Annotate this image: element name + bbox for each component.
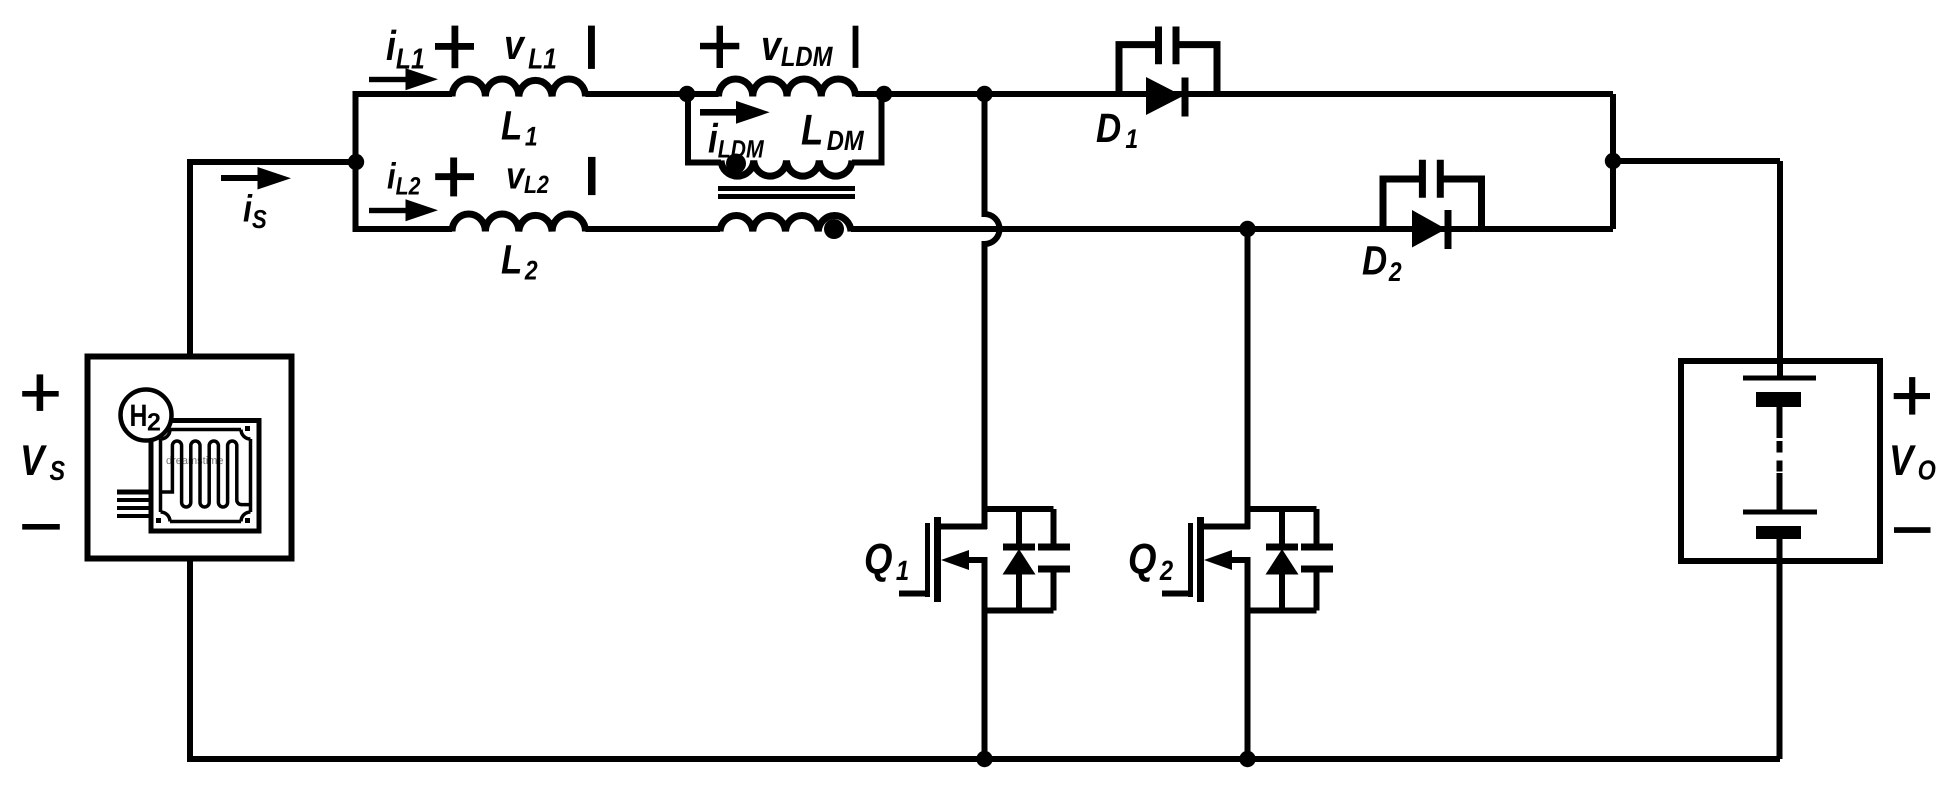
wire LDM loop right vertical bbox=[879, 94, 885, 163]
Q1 body diode triangle bbox=[1003, 549, 1036, 575]
diode D1 bbox=[1146, 77, 1183, 115]
wire Q1 drain vertical with hop over L2 line bbox=[985, 94, 1000, 529]
battery cell 1 short plate bbox=[1756, 392, 1801, 407]
capacitor snubber of D1 bbox=[1119, 45, 1217, 94]
Q1 body diode leads bbox=[1016, 509, 1022, 611]
Q2 snubber top branch bbox=[1248, 506, 1317, 512]
Q1 body diode cathode bar bbox=[1003, 544, 1035, 551]
Q1 snubber top branch bbox=[985, 506, 1054, 512]
coupled inductor LDM lower winding bbox=[720, 215, 851, 231]
wire L1 to node A bbox=[586, 91, 691, 97]
MOSFET Q1 bbox=[899, 509, 1070, 759]
battery VO box bbox=[1681, 361, 1880, 561]
Q1 parasitic capacitor plates bbox=[1038, 547, 1070, 569]
Q2 body diode leads bbox=[1279, 509, 1285, 611]
Q2 parasitic capacitor plates bbox=[1301, 547, 1333, 569]
arrow iL2 bbox=[369, 208, 406, 213]
wire Q2 drain vertical bbox=[1245, 229, 1251, 529]
battery cell 1 long plate bbox=[1743, 376, 1816, 381]
arrow iS bbox=[221, 175, 259, 181]
wire LDM top leads bbox=[687, 91, 884, 97]
diode D1 cathode bar bbox=[1182, 78, 1189, 117]
svg-text:2: 2 bbox=[147, 409, 161, 437]
wire L2 branch left lead bbox=[353, 226, 453, 232]
svg-text:H: H bbox=[130, 398, 148, 433]
node D output junction bbox=[1605, 153, 1621, 169]
label vLDM minus bar bbox=[853, 26, 859, 68]
diode D2 bbox=[1412, 210, 1446, 248]
wire L2 line to right corner bbox=[851, 226, 1613, 232]
battery dashed link bbox=[1777, 441, 1783, 453]
Q1 source vertical bbox=[982, 560, 988, 759]
arrow iLDM bbox=[700, 109, 738, 116]
polarity dot LDM winding 1 bbox=[726, 154, 746, 174]
Q2 parasitic capacitor leads bbox=[1314, 509, 1320, 611]
battery internal link bbox=[1777, 407, 1783, 438]
wire top line node B to corner bbox=[884, 91, 1613, 97]
wire LDM loop left vertical bbox=[685, 94, 691, 163]
Q2 gate bar bbox=[1188, 523, 1193, 597]
fuel cell pipe vertical bbox=[153, 440, 158, 492]
Q2 source vertical bbox=[1245, 560, 1251, 759]
label VS plus sign bbox=[22, 391, 59, 397]
source VS box bbox=[88, 357, 292, 559]
Q1 channel bar bbox=[934, 517, 941, 602]
node Q2 source to ground bus bbox=[1239, 751, 1255, 767]
fuel cell H2 circle bbox=[121, 390, 172, 441]
node A bbox=[679, 86, 695, 102]
fuel cell pipes bbox=[117, 490, 176, 495]
inductor L1 bbox=[452, 79, 586, 97]
MOSFET Q2 bbox=[1162, 509, 1333, 759]
node source tap junction bbox=[348, 154, 364, 170]
label vL1 minus bar bbox=[588, 26, 595, 69]
core line 1 bbox=[718, 186, 855, 191]
node B bbox=[876, 86, 892, 102]
Q1 gate lead bbox=[899, 591, 925, 597]
Q2 snubber bottom branch bbox=[1248, 608, 1317, 614]
label vL1 plus sign bbox=[435, 43, 474, 50]
core line 2 bbox=[718, 194, 855, 199]
wire left rail vertical bbox=[353, 91, 359, 229]
battery internal link 2 bbox=[1777, 473, 1783, 512]
Q1 gate bar bbox=[925, 523, 930, 597]
label vL2 minus bar bbox=[588, 157, 596, 195]
coupled inductor LDM top winding bbox=[719, 79, 856, 97]
arrow iL1 bbox=[369, 77, 406, 82]
capacitor snubber of D2 bbox=[1383, 179, 1482, 229]
battery cell 2 long plate bbox=[1743, 510, 1817, 515]
label VO minus sign bbox=[1894, 527, 1931, 533]
wire L1 branch left lead bbox=[353, 91, 453, 97]
coupled inductor LDM return winding bbox=[721, 161, 852, 177]
Q1 drain jog bbox=[937, 524, 987, 530]
Q2 source arrow bbox=[1204, 550, 1232, 570]
Q2 channel bar bbox=[1197, 517, 1204, 602]
node E (Q2 drain tap) bbox=[1239, 221, 1255, 237]
wire right corner verticals bbox=[1610, 94, 1616, 229]
Q2 body diode cathode bar bbox=[1266, 544, 1298, 551]
Q1 parasitic capacitor leads bbox=[1051, 509, 1057, 611]
Q2 source lead bbox=[1229, 557, 1251, 563]
wire source top lead to left rail bbox=[190, 162, 352, 356]
battery cell 2 short plate bbox=[1756, 526, 1801, 539]
label VO plus sign bbox=[1894, 393, 1930, 399]
capacitor plates of D2 snubber bbox=[1422, 160, 1440, 198]
capacitor plates of D1 snubber bbox=[1159, 27, 1177, 65]
fuel cell stack corner dots bbox=[245, 426, 250, 431]
fuel cell icon bbox=[117, 390, 259, 532]
Q1 source lead bbox=[966, 557, 988, 563]
wire node D to battery bbox=[1613, 161, 1780, 378]
Q1 snubber bottom branch bbox=[985, 608, 1054, 614]
fuel cell serpentine channel bbox=[161, 441, 249, 507]
label vL2 plus sign bbox=[435, 173, 474, 180]
node C bbox=[976, 86, 992, 102]
Q2 body diode triangle bbox=[1266, 549, 1299, 575]
Q2 drain jog bbox=[1200, 524, 1250, 530]
Q2 gate lead bbox=[1162, 591, 1188, 597]
node Q1 source to ground bus bbox=[976, 751, 992, 767]
wire LDM loop bottom leads bbox=[685, 160, 885, 166]
wire L2 to LDM lower winding bbox=[586, 226, 721, 232]
Q1 source arrow bbox=[941, 550, 969, 570]
diode D2 cathode bar bbox=[1445, 210, 1452, 249]
fuel cell stack inner frame bbox=[161, 430, 251, 522]
inductor L2 bbox=[452, 214, 586, 232]
label vLDM plus sign bbox=[700, 43, 739, 50]
wire bottom bus bbox=[190, 559, 1780, 759]
polarity dot LDM winding 2 bbox=[824, 219, 844, 239]
svg-text:dreamstime: dreamstime bbox=[166, 455, 223, 467]
fuel cell stack outer bbox=[151, 421, 259, 532]
wire battery negative lead bbox=[1777, 539, 1783, 759]
label VS minus sign bbox=[22, 524, 60, 530]
